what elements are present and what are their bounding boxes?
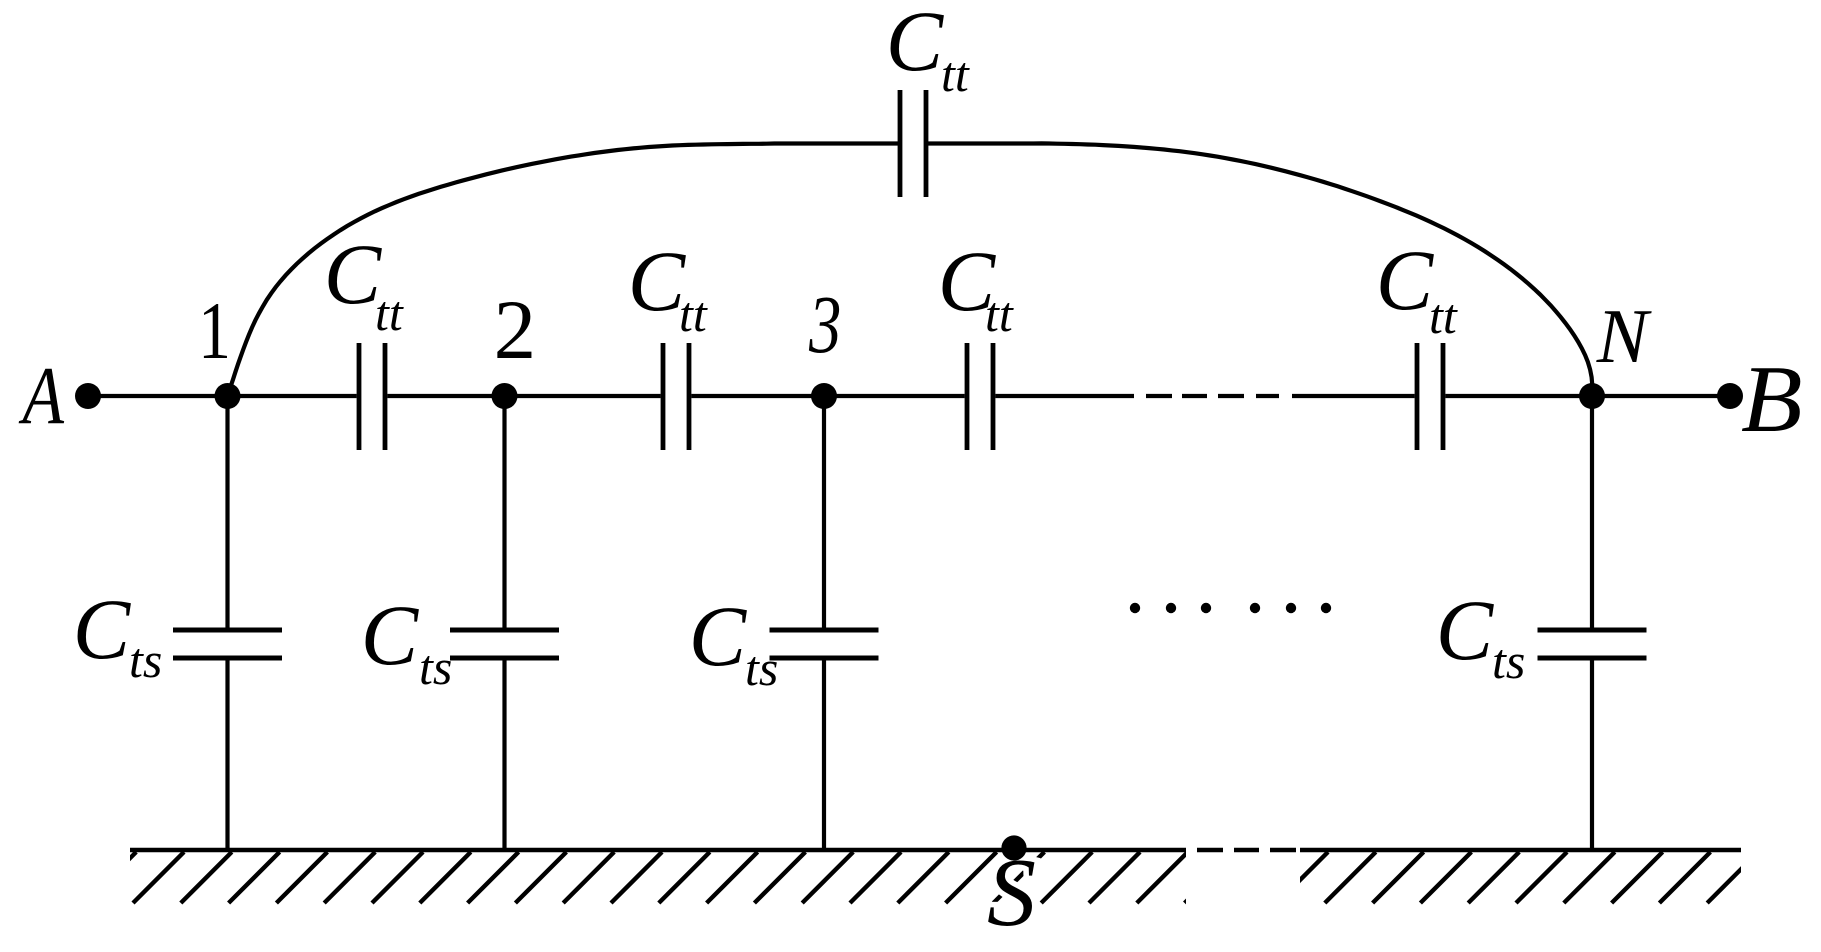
node B xyxy=(1717,383,1743,409)
capacitor C_tt right of node 3 xyxy=(965,343,970,450)
wire from dashed break to C_tt(..-N) left plate xyxy=(1292,394,1415,398)
capacitor C_ts at node 3 xyxy=(770,628,879,633)
wire from cap to dashed break xyxy=(995,394,1134,398)
svg-text:3: 3 xyxy=(808,280,841,371)
svg-text:C: C xyxy=(324,226,383,322)
svg-text:tt: tt xyxy=(985,286,1014,342)
node N xyxy=(1579,383,1605,409)
wire cap right plate to node 2 to C_tt(2-3) left plate xyxy=(387,394,660,398)
ground plane line (right section) xyxy=(1300,848,1741,853)
svg-text:C: C xyxy=(73,581,132,677)
wire node 1 down to C_ts top plate xyxy=(225,396,229,628)
wire A to node 1 to capacitor C_tt(1-2) left plate xyxy=(88,394,357,398)
ellipsis dots (continuation) xyxy=(1130,603,1140,613)
svg-text:ts: ts xyxy=(745,640,778,696)
capacitor C_ts at node N xyxy=(1538,628,1647,633)
svg-text:tt: tt xyxy=(941,46,970,102)
svg-text:C: C xyxy=(689,588,748,684)
wire C_ts bottom plate down to ground plane xyxy=(822,661,826,851)
ground hatching (right section) xyxy=(1277,852,1758,903)
dashed continuation of top line xyxy=(1146,394,1172,398)
capacitor C_tt top (node 1 to node N) xyxy=(898,90,903,197)
capacitor C_ts at node 2 xyxy=(450,628,559,633)
svg-text:C: C xyxy=(1436,582,1495,678)
label B (right terminal) xyxy=(1741,348,1803,453)
capacitor C_ts at node 1 xyxy=(173,628,282,633)
svg-text:C: C xyxy=(361,587,420,683)
svg-text:N: N xyxy=(1596,293,1652,379)
wire arc from node 1 up to top capacitor xyxy=(228,144,900,395)
svg-text:tt: tt xyxy=(375,285,404,341)
ground plane line (left section) xyxy=(130,848,1186,853)
svg-text:2: 2 xyxy=(494,283,536,377)
wire node 2 down to C_ts top plate xyxy=(502,396,506,628)
wire C_ts bottom plate down to ground plane xyxy=(225,661,229,851)
wire arc from top capacitor down to node N xyxy=(926,143,1592,394)
wire node 3 down to C_ts top plate xyxy=(822,396,826,628)
label 1 (node 1) xyxy=(198,286,231,377)
node 1 xyxy=(215,383,241,409)
wire C_ts bottom plate down to ground plane xyxy=(502,661,506,851)
svg-text:C: C xyxy=(1376,232,1435,328)
node 3 xyxy=(811,383,837,409)
ground plane line dashed gap xyxy=(1197,848,1223,853)
svg-text:ts: ts xyxy=(1492,633,1525,689)
label 3 (node 3) xyxy=(808,280,841,371)
wire C_ts bottom plate down to ground plane xyxy=(1590,661,1594,851)
svg-text:C: C xyxy=(886,0,945,89)
svg-text:S: S xyxy=(987,839,1036,947)
svg-text:ts: ts xyxy=(419,639,452,695)
svg-text:1: 1 xyxy=(198,286,231,377)
node S on ground plane xyxy=(1001,835,1026,860)
node A xyxy=(75,383,101,409)
svg-text:C: C xyxy=(628,233,687,329)
svg-text:A: A xyxy=(18,350,65,442)
wire to node 3 and C_tt(3-..) left plate xyxy=(691,394,964,398)
svg-text:ts: ts xyxy=(129,632,162,688)
capacitor C_tt between node 1 and node 2 xyxy=(357,343,362,450)
wire node N down to C_ts top plate xyxy=(1590,396,1594,628)
node 2 xyxy=(492,383,518,409)
label A (left terminal) xyxy=(18,350,65,442)
capacitor C_tt between node 2 and node 3 xyxy=(661,343,666,450)
svg-text:tt: tt xyxy=(679,286,708,342)
wire from cap through node N to B xyxy=(1445,394,1730,398)
svg-text:tt: tt xyxy=(1429,288,1458,344)
capacitor C_tt left of node N xyxy=(1415,343,1420,450)
svg-text:B: B xyxy=(1741,348,1803,453)
